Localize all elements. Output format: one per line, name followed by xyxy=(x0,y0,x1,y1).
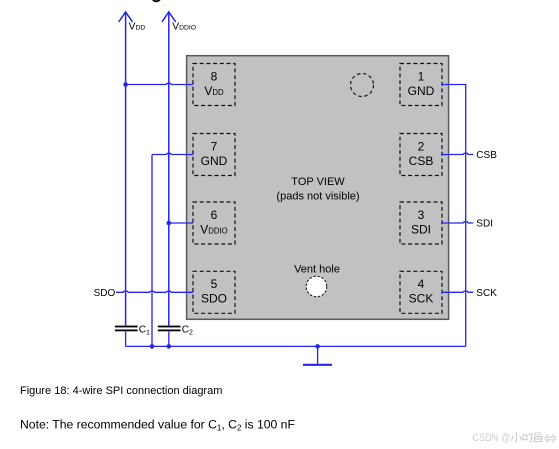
vent hole xyxy=(306,276,327,297)
wire CSB (hop over right GND rail) xyxy=(442,153,473,154)
pin 4 SCK xyxy=(400,271,442,313)
svg-text:7: 7 xyxy=(211,139,218,153)
svg-text:GND: GND xyxy=(201,154,228,168)
junction dot VDDIO rail / pin6 wire xyxy=(167,221,172,226)
svg-text:SDI: SDI xyxy=(411,222,431,236)
svg-text:SCK: SCK xyxy=(409,292,434,306)
svg-text:TOP VIEW: TOP VIEW xyxy=(291,176,345,188)
svg-text:GND: GND xyxy=(408,84,435,98)
junction dot C2 / ground bus xyxy=(167,344,172,349)
ground symbol xyxy=(303,364,332,366)
wire C1 bottom to ground bus xyxy=(125,331,127,346)
cropped heading descender (letter g) xyxy=(152,0,160,1)
wire pin1 to right GND rail xyxy=(442,85,466,347)
svg-text:2: 2 xyxy=(418,139,425,153)
svg-text:SCK: SCK xyxy=(476,288,497,299)
pin 1 indicator dashed circle xyxy=(351,74,374,97)
junction dot GND rail / ground bus xyxy=(150,344,155,349)
svg-text:C2: C2 xyxy=(182,325,193,337)
pin 5 SDO xyxy=(193,271,235,313)
capacitor C2 xyxy=(158,326,181,332)
svg-text:CSDN @: CSDN @ xyxy=(473,432,511,444)
supply arrow VDD xyxy=(119,12,133,326)
svg-text:VDD: VDD xyxy=(129,22,146,33)
svg-text:1: 1 xyxy=(418,69,425,83)
svg-text:SDO: SDO xyxy=(201,292,227,306)
wire SCK (hop over right GND rail) xyxy=(442,291,473,292)
pin 1 GND xyxy=(400,64,442,106)
capacitor C1 xyxy=(115,326,138,332)
wire left GND rail xyxy=(151,155,153,347)
junction dot ground stem / ground bus xyxy=(315,344,320,349)
wire C2 bottom to ground bus xyxy=(168,331,170,346)
pin 8 VDD xyxy=(193,64,235,106)
watermark xyxy=(473,432,556,444)
wire pin8 to VDD rail (hop over VDDIO rail) xyxy=(126,83,193,84)
ground stem xyxy=(317,346,319,364)
svg-text:4: 4 xyxy=(418,277,425,291)
wire ground bus xyxy=(126,345,466,347)
pin 3 SDI xyxy=(400,202,442,244)
svg-text:(pads not visible): (pads not visible) xyxy=(276,191,359,203)
svg-text:SDO: SDO xyxy=(94,288,116,299)
svg-text:VDDIO: VDDIO xyxy=(172,22,196,33)
svg-text:Note: The recommended value fo: Note: The recommended value for C1, C2 i… xyxy=(20,417,295,432)
wire pin7 to GND rail (hop over VDDIO rail) xyxy=(152,153,193,154)
svg-text:5: 5 xyxy=(211,277,218,291)
svg-text:6: 6 xyxy=(211,208,218,222)
wire SDI (hop over right GND rail) xyxy=(442,222,473,223)
svg-text:CSB: CSB xyxy=(476,150,497,161)
svg-text:8: 8 xyxy=(211,69,218,83)
svg-text:3: 3 xyxy=(418,208,425,222)
svg-text:C1: C1 xyxy=(139,325,150,337)
wire pin6 to VDDIO rail xyxy=(169,222,193,224)
junction dot VDD rail / pin8 wire xyxy=(123,82,128,87)
IC body U1 (top view) xyxy=(187,56,449,320)
svg-text:Vent hole: Vent hole xyxy=(294,263,340,275)
wire SDO (hops over VDD, GND, VDDIO rails) xyxy=(116,291,193,292)
supply arrow VDDIO xyxy=(162,12,176,326)
pin 2 CSB xyxy=(400,134,442,176)
pin 6 VDDIO xyxy=(193,202,235,244)
pin 7 GND xyxy=(193,134,235,176)
svg-text:CSB: CSB xyxy=(409,154,434,168)
svg-text:Figure 18: 4-wire SPI connecti: Figure 18: 4-wire SPI connection diagram xyxy=(20,385,222,397)
svg-text:SDI: SDI xyxy=(476,219,493,230)
